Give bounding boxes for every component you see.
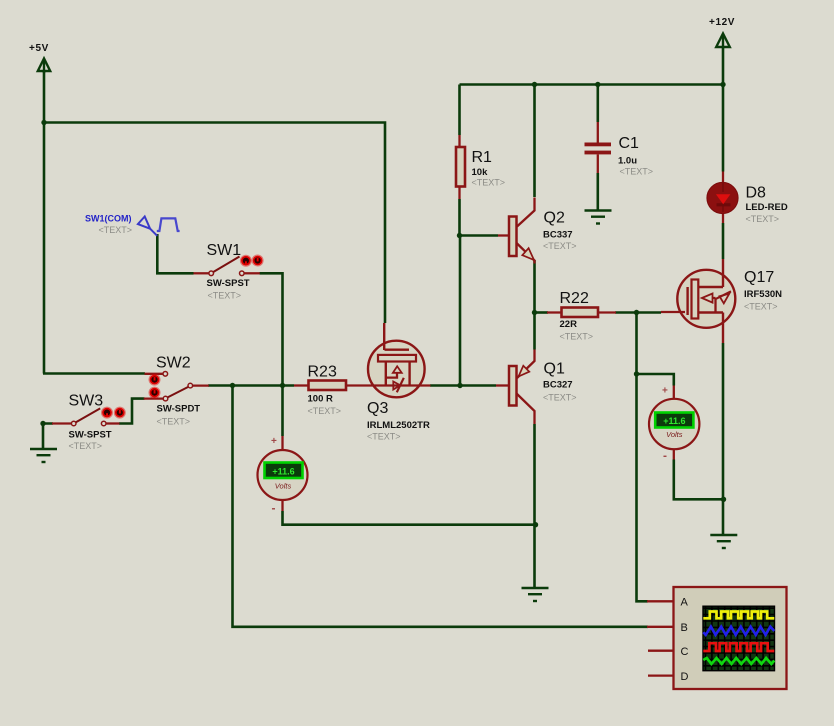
ground (Q17) <box>710 535 737 548</box>
svg-text:10k: 10k <box>472 167 489 178</box>
svg-text:SW-SPST: SW-SPST <box>69 430 112 441</box>
wire top bus <box>460 83 724 86</box>
mosfet Q17 <box>661 259 782 343</box>
junction SW2 output / scope-B branch <box>230 383 235 388</box>
svg-text:Q2: Q2 <box>544 210 565 227</box>
svg-text:Q17: Q17 <box>744 269 774 286</box>
wire Q2 collector <box>533 85 536 198</box>
wire +5V rail to SW2 <box>43 372 145 375</box>
resistor R1 <box>456 135 505 199</box>
transistor Q1 <box>496 350 577 425</box>
svg-text:<TEXT>: <TEXT> <box>560 332 594 342</box>
wire Q1 collector to ground <box>533 424 536 588</box>
svg-text:<TEXT>: <TEXT> <box>157 417 191 427</box>
svg-text:A: A <box>681 597 689 609</box>
oscilloscope <box>647 587 787 689</box>
svg-text:D: D <box>681 671 689 683</box>
svg-text:C: C <box>681 646 689 658</box>
svg-text:-: - <box>663 449 667 463</box>
wire R22 right to Q17 gate <box>615 311 661 314</box>
svg-text:+12V: +12V <box>709 17 735 28</box>
junction top bus / Q2 collector <box>532 82 537 87</box>
wire gate node down to scope A <box>637 313 649 602</box>
wire R1 bottom to Q2 base <box>460 199 499 236</box>
wire +5V rail vertical <box>43 71 46 374</box>
svg-text:IRF530N: IRF530N <box>744 289 782 300</box>
mosfet Q3 <box>346 323 431 442</box>
svg-text:100 R: 100 R <box>308 394 333 405</box>
svg-text:BC327: BC327 <box>543 380 573 391</box>
svg-text:<TEXT>: <TEXT> <box>472 178 506 188</box>
wire top-left horizontal to Q3 <box>44 123 385 324</box>
svg-text:SW1(COM): SW1(COM) <box>85 214 132 224</box>
voltmeter VM2 <box>649 386 699 463</box>
svg-text:LED-RED: LED-RED <box>746 202 788 213</box>
wire SW2 common to R23 node <box>208 384 294 387</box>
wire node B to oscilloscope channel B <box>233 386 649 627</box>
junction R22 / scope-A branch <box>634 310 639 315</box>
svg-text:B: B <box>681 622 688 634</box>
wire voltmeter1 minus across <box>283 511 536 525</box>
junction R1 / Q2 base / base rail <box>457 233 462 238</box>
wire SW3 to SW2 lower throw <box>119 399 145 424</box>
svg-text:+11.6: +11.6 <box>272 467 294 477</box>
svg-text:R23: R23 <box>308 364 337 381</box>
svg-text:<TEXT>: <TEXT> <box>746 214 780 224</box>
svg-text:Q1: Q1 <box>544 361 565 378</box>
svg-text:SW1: SW1 <box>207 242 242 259</box>
svg-text:22R: 22R <box>560 319 578 330</box>
svg-text:<TEXT>: <TEXT> <box>99 225 133 235</box>
junction +5V rail / top-left wire <box>41 120 46 125</box>
svg-text:SW2: SW2 <box>156 355 191 372</box>
wire D8 to Q17 <box>722 223 725 259</box>
svg-text:SW-SPDT: SW-SPDT <box>157 404 201 415</box>
svg-text:+5V: +5V <box>29 43 49 54</box>
svg-text:BC337: BC337 <box>543 230 573 241</box>
ground (C1) <box>585 211 612 224</box>
svg-text:<TEXT>: <TEXT> <box>744 302 778 312</box>
ground (SW3) <box>30 449 57 462</box>
svg-text:1.0u: 1.0u <box>618 156 637 167</box>
wire voltmeter2 minus to source rail <box>674 460 724 500</box>
svg-text:SW3: SW3 <box>69 393 104 410</box>
switch SW1 <box>194 242 264 301</box>
power +12V <box>709 17 735 48</box>
junction top bus / +12V rail <box>720 82 725 87</box>
switch SW2 <box>144 355 209 427</box>
svg-text:+: + <box>271 436 277 447</box>
svg-text:<TEXT>: <TEXT> <box>308 406 342 416</box>
junction Q1 collector / voltmeter1 minus <box>533 522 538 527</box>
transistor Q2 <box>498 198 577 264</box>
trace B blue <box>703 627 774 635</box>
junction SW1 output / R23 / voltmeter1 <box>280 383 285 388</box>
wire SW1 out down to R23 node and voltmeter <box>260 273 283 436</box>
resistor R22 <box>547 290 616 342</box>
junction Q2-Q1 emitters / R22 <box>532 310 537 315</box>
svg-text:IRLML2502TR: IRLML2502TR <box>367 420 430 431</box>
svg-text:Volts: Volts <box>666 430 683 439</box>
svg-text:Q3: Q3 <box>367 400 388 417</box>
svg-text:+11.6: +11.6 <box>663 416 685 426</box>
svg-text:R22: R22 <box>560 290 589 307</box>
wire SW3 left to ground <box>43 424 53 450</box>
svg-text:<TEXT>: <TEXT> <box>367 432 401 442</box>
junction Q17 source / voltmeter2 minus <box>721 497 726 502</box>
voltage probe SW1(COM) <box>85 214 180 236</box>
LED D8 <box>707 172 788 225</box>
svg-text:SW-SPST: SW-SPST <box>207 278 250 289</box>
wire base rail R1 to Q1 base node <box>459 236 462 386</box>
resistor R23 <box>294 364 346 417</box>
wire C1 top <box>596 85 599 123</box>
voltmeter VM1 <box>258 436 308 515</box>
junction top bus / C1 <box>595 82 600 87</box>
wire Q3 drain to Q1 base <box>430 384 496 387</box>
ground (Q1) <box>522 588 549 601</box>
svg-text:-: - <box>272 501 276 515</box>
trace C red <box>703 643 774 651</box>
svg-text:<TEXT>: <TEXT> <box>543 393 577 403</box>
svg-text:<TEXT>: <TEXT> <box>208 291 242 301</box>
wire probe to SW1 <box>157 234 193 273</box>
trace D green <box>703 658 774 664</box>
svg-text:D8: D8 <box>746 185 767 202</box>
junction Q3 / Q1 base / base rail <box>457 383 462 388</box>
svg-text:Volts: Volts <box>275 482 292 491</box>
switch SW3 <box>52 393 126 452</box>
capacitor C1 <box>585 122 654 177</box>
junction SW3 / ground <box>40 421 45 426</box>
wire C1 bottom to ground <box>596 173 599 211</box>
wire +12V rail to D8 <box>722 47 725 172</box>
wire R1 top <box>458 85 461 136</box>
svg-text:<TEXT>: <TEXT> <box>69 441 103 451</box>
svg-text:<TEXT>: <TEXT> <box>543 241 577 251</box>
svg-text:C1: C1 <box>619 135 640 152</box>
wire Q1 emitter link <box>533 313 536 350</box>
svg-text:+: + <box>662 386 668 397</box>
wire R22 left link <box>535 311 549 314</box>
wire Q17 source to ground <box>722 343 725 536</box>
wire to voltmeter2 plus <box>637 374 674 386</box>
power +5V <box>29 43 50 73</box>
svg-text:R1: R1 <box>472 149 493 166</box>
wire Q2 emitter to R22 node <box>533 260 536 313</box>
trace A yellow <box>703 612 774 619</box>
svg-text:<TEXT>: <TEXT> <box>620 167 654 177</box>
junction scope-A branch / voltmeter2 <box>634 371 639 376</box>
